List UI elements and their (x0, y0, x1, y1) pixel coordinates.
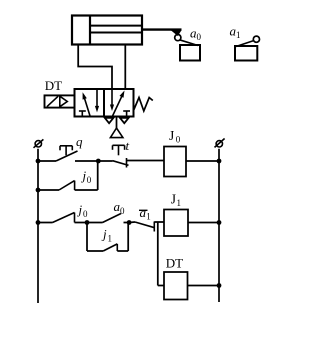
node after q (96, 159, 101, 164)
j1 branch drop wire (86, 223, 88, 252)
wire rung 2 left (38, 189, 59, 191)
piston rod (double line inside cylinder) (90, 26, 142, 33)
svg-text:J: J (169, 128, 174, 143)
wire rung 3 left (38, 222, 53, 224)
svg-text:DT: DT (166, 255, 183, 270)
valve left position: down flow arrow (95, 89, 99, 112)
valve body (4/2 directional valve) (75, 89, 134, 117)
wire J0 to right bus (186, 160, 219, 162)
relay contact j1 (103, 244, 117, 251)
junction left bus rung 3 (36, 220, 41, 225)
NC pushbutton contact t (113, 145, 129, 167)
svg-text:0: 0 (197, 32, 202, 42)
limit switch a1 body (235, 46, 257, 61)
label j0 (rung 3) (77, 202, 89, 219)
svg-text:j: j (77, 202, 83, 217)
label a1 (230, 23, 241, 40)
wire rung 2 right (75, 189, 98, 191)
relay contact j0 (rung 3) (53, 213, 75, 223)
cylinder body (72, 16, 142, 45)
pushbutton contact q (56, 146, 78, 161)
solenoid DT (45, 95, 75, 107)
node DT branch tap (157, 222, 159, 286)
right bus wire (218, 149, 220, 302)
roller of limit switch a0 (175, 35, 181, 41)
wire a1-bar to coil J1 (154, 221, 164, 223)
valve right position: down flow arrow (110, 89, 114, 111)
limit switch a0 body (180, 45, 200, 61)
right supply terminal (215, 139, 225, 148)
junction right bus rung 1 (217, 159, 222, 164)
valve right position: blocked port T symbol (123, 111, 130, 117)
svg-text:DT: DT (45, 78, 62, 93)
NC contact a1-bar (129, 222, 154, 232)
left supply terminal (34, 139, 44, 147)
label q (76, 134, 83, 149)
node A (j1 branch tap) (85, 220, 90, 225)
svg-text:j: j (101, 227, 107, 242)
svg-text:0: 0 (120, 206, 125, 216)
label t (126, 138, 130, 153)
wire rung 1 left (38, 160, 56, 162)
label a0 (contact) (114, 199, 126, 216)
cam wedge on rod end (171, 30, 182, 36)
wire node A to contact a0 (87, 222, 103, 224)
j1 branch riser (127, 223, 129, 252)
valve right position: diagonal flow arrow (112, 91, 124, 117)
svg-text:j: j (81, 168, 87, 183)
lever of limit switch a1 (236, 41, 254, 47)
exhaust triangle left (105, 118, 114, 123)
svg-text:t: t (126, 138, 130, 153)
relay coil J0 (164, 147, 186, 177)
wire to contact t (98, 160, 112, 162)
valve left position: blocked port T symbol (79, 111, 86, 117)
label a0 (190, 26, 202, 43)
svg-text:0: 0 (87, 175, 92, 185)
wire rung 1 middle (75, 160, 98, 162)
svg-text:1: 1 (177, 198, 182, 208)
junction left bus rung 1 (36, 159, 41, 164)
label J0 (169, 128, 181, 145)
valve left position: diagonal flow arrow (83, 92, 91, 116)
node B (j1 branch return) (127, 220, 132, 225)
return spring (134, 98, 153, 112)
limit switch contact a0 (103, 214, 122, 223)
solenoid coil DT (ladder) (164, 272, 188, 300)
svg-text:J: J (171, 192, 176, 207)
label j1 (101, 227, 112, 244)
label J1 (171, 192, 181, 209)
relay contact j0 (holding) (59, 181, 75, 190)
supply line (116, 117, 118, 129)
piston rod (outside cylinder) (142, 28, 182, 30)
j1 branch bottom wire left (87, 250, 103, 252)
wire t to coil J0 (127, 160, 165, 162)
svg-text:1: 1 (146, 212, 151, 222)
label DT (solenoid) (45, 78, 62, 93)
svg-text:1: 1 (236, 30, 241, 40)
svg-text:0: 0 (83, 209, 88, 219)
svg-text:q: q (76, 134, 83, 149)
junction right bus DT (217, 283, 222, 288)
exhaust triangle right (120, 118, 129, 123)
riser rung 2 to node after q (97, 161, 99, 190)
j1 branch bottom wire right (117, 250, 128, 252)
supply source triangle (110, 128, 123, 138)
junction left bus rung 2 (36, 188, 41, 193)
pipe A (cylinder left port to valve port A) (78, 45, 112, 90)
wire DT to right bus (188, 285, 220, 287)
left bus wire (37, 149, 39, 303)
label j0 (holding contact) (81, 168, 92, 185)
svg-text:0: 0 (176, 134, 181, 144)
junction right bus rung 3 (217, 220, 222, 225)
wire a0 to node B (124, 222, 130, 224)
roller of limit switch a1 (253, 36, 259, 42)
label DT (ladder coil) (166, 255, 183, 270)
wire DT branch horizontal (158, 285, 164, 287)
svg-text:1: 1 (108, 234, 113, 244)
label a1-bar (139, 205, 151, 222)
wire to node A (75, 222, 88, 224)
pipe B (cylinder right port to valve port B) (124, 45, 126, 90)
relay coil J1 (164, 210, 188, 237)
lever of limit switch a0 (180, 40, 199, 46)
wire J1 to right bus (188, 222, 219, 224)
cylinder piston (89, 16, 91, 45)
